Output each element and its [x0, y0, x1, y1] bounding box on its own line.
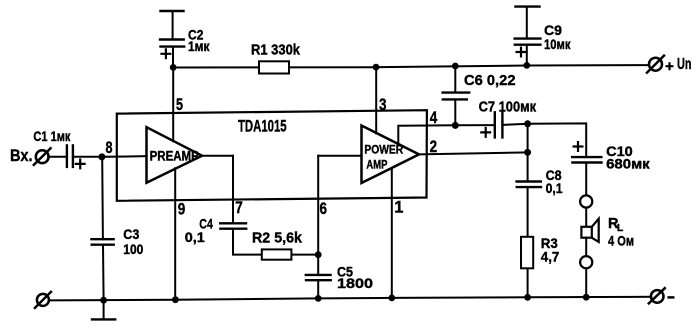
capacitor C1: [67, 145, 85, 168]
resistor R3: [521, 237, 533, 268]
terminal +Un: [647, 56, 672, 73]
wire C7 to output node: [502, 124, 527, 125]
svg-text:R1 330k: R1 330k: [251, 42, 301, 58]
svg-text:5: 5: [176, 96, 183, 114]
capacitor C6: [443, 66, 470, 125]
svg-text:680мк: 680мк: [606, 157, 650, 172]
op-amp POWER AMP triangle: [362, 126, 420, 184]
wire C10 to speaker terminal: [585, 163, 587, 196]
svg-text:L: L: [617, 222, 624, 234]
svg-text:Un: Un: [677, 56, 692, 73]
capacitor C5: [306, 275, 331, 280]
wire pin4 continues to C7: [455, 124, 494, 126]
svg-text:0,1: 0,1: [546, 181, 563, 196]
node junction rail/C9: [523, 62, 530, 69]
svg-text:100: 100: [123, 242, 143, 257]
capacitor C3: [92, 239, 114, 245]
terminal minus right: [649, 288, 673, 303]
wire pin7 down through box to C4: [232, 156, 234, 223]
terminal circle lower speaker: [580, 256, 592, 268]
wire input node down through C3 to rail: [102, 157, 103, 300]
node junction C7/C10 link: [524, 120, 531, 127]
node junction input/pin8: [98, 153, 105, 160]
wire input to C1: [48, 156, 67, 158]
wire link to C10: [528, 123, 587, 157]
wire PREAMP output to pin7 corner: [202, 155, 233, 157]
wire top supply rail: [173, 65, 649, 67]
value label C4: [185, 216, 213, 245]
svg-text:1: 1: [394, 198, 403, 216]
op-amp PREAMP triangle: [147, 127, 203, 183]
node junction R2/pin6: [315, 251, 322, 258]
wire link down to output: [527, 124, 529, 153]
svg-text:C9: C9: [544, 23, 562, 38]
resistor R2: [262, 249, 318, 259]
svg-text:9: 9: [178, 201, 186, 219]
node junction R3/rail: [524, 294, 531, 301]
terminal bottom-left: [35, 292, 51, 308]
svg-text:PREAMP: PREAMP: [150, 149, 199, 164]
node junction speaker/rail: [583, 294, 590, 301]
node junction rail/C6: [452, 63, 459, 70]
wire to speaker: [585, 208, 587, 227]
label POWER AMP: [364, 143, 403, 172]
wire C5 to rail: [317, 280, 319, 298]
wire output pin2: [419, 152, 528, 154]
svg-text:2: 2: [430, 138, 438, 156]
svg-text:Вх.: Вх.: [10, 146, 33, 165]
svg-text:3: 3: [379, 96, 387, 114]
svg-text:R2 5,6k: R2 5,6k: [252, 231, 303, 247]
value label RL: [608, 216, 634, 248]
svg-text:10мк: 10мк: [544, 37, 571, 52]
svg-text:1мк: 1мк: [188, 39, 210, 54]
node junction C6/pin4: [452, 122, 459, 129]
capacitor C4: [220, 223, 246, 228]
capacitor C9: [515, 7, 541, 66]
node junction C3/rail: [100, 297, 107, 304]
svg-text:C3: C3: [123, 227, 139, 242]
wire speaker to lower terminal: [585, 238, 587, 256]
value label C5: [337, 264, 373, 290]
capacitor C7: [481, 112, 502, 137]
wire pin6 vertical through box to C5: [317, 156, 319, 275]
value label C8: [546, 168, 563, 196]
svg-text:4: 4: [430, 109, 438, 127]
node junction output/C8: [524, 149, 531, 156]
svg-text:POWER: POWER: [364, 143, 403, 157]
value label C9: [544, 23, 571, 52]
wire pin1 POWER AMP to rail: [391, 168, 393, 298]
svg-text:C6 0,22: C6 0,22: [464, 73, 516, 89]
terminal circle upper speaker: [580, 195, 592, 207]
value label C10: [606, 144, 650, 172]
wire pin6 to POWER AMP input: [318, 155, 361, 157]
terminal input Вх: [34, 148, 51, 165]
node junction rail/pin3: [373, 64, 380, 71]
capacitor C8: [517, 182, 541, 188]
wire pin5 from rail into PREAMP: [172, 68, 174, 142]
svg-text:C1 1мк: C1 1мк: [33, 129, 70, 144]
capacitor C2: [160, 11, 184, 68]
speaker RL: [581, 219, 598, 242]
node junction pin1/rail: [388, 295, 395, 302]
wire C4 to R2: [233, 229, 262, 255]
wire pin4 from POWER AMP top to box edge: [398, 125, 455, 144]
svg-text:C7 100мк: C7 100мк: [479, 99, 537, 115]
node junction C5/rail: [315, 295, 322, 302]
capacitor C10: [572, 142, 601, 162]
svg-text:4 Ом: 4 Ом: [608, 233, 634, 248]
op-amp U1 TDA1015 IC box: [117, 110, 427, 201]
svg-text:8: 8: [106, 139, 113, 157]
value label C3: [123, 227, 143, 257]
resistor R1: [259, 61, 289, 73]
svg-text:4,7: 4,7: [541, 250, 560, 265]
wire pin3 from rail into POWER AMP: [375, 67, 377, 133]
node junction pin9/rail: [172, 296, 179, 303]
wire pin8 into PREAMP: [102, 155, 147, 158]
value label C2: [188, 27, 210, 54]
wire bottom common rail: [49, 297, 652, 301]
node junction C2/rail: [170, 64, 177, 71]
svg-text:0,1: 0,1: [185, 230, 205, 245]
wire C1 to pin8: [73, 156, 102, 158]
svg-text:TDA1015: TDA1015: [238, 117, 287, 135]
svg-text:AMP: AMP: [366, 158, 387, 172]
ground: [92, 300, 115, 319]
wire lower terminal to rail: [585, 268, 587, 297]
wire C8/R3 branch: [527, 152, 529, 297]
svg-text:1800: 1800: [337, 276, 373, 291]
wire pin9 PREAMP to rail: [174, 168, 176, 299]
value label R3: [541, 236, 560, 265]
svg-text:7: 7: [235, 199, 243, 217]
svg-text:6: 6: [320, 200, 328, 218]
